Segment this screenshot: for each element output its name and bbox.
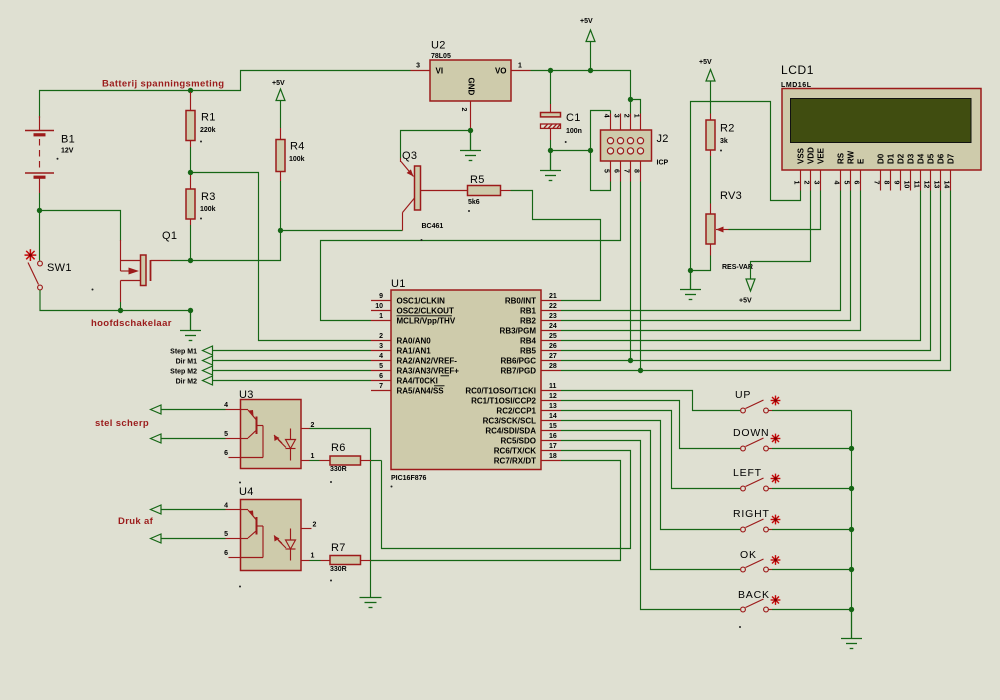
svg-text:RS: RS xyxy=(836,152,845,164)
junction RV3 ground xyxy=(688,268,693,273)
wire U2 VO +5V rail xyxy=(531,71,631,100)
LCD screen xyxy=(791,99,972,143)
svg-text:C1: C1 xyxy=(566,112,581,124)
wire junction down to Q1 gate rail xyxy=(171,231,281,261)
battery B1 xyxy=(39,116,41,130)
wire U2 GND to Q3 emitter xyxy=(401,131,471,159)
junction RB6 J2 pin7 xyxy=(628,358,633,363)
svg-text:3k: 3k xyxy=(720,138,728,145)
svg-text:RC1/T1OSI/CCP2: RC1/T1OSI/CCP2 xyxy=(471,397,536,406)
svg-text:24: 24 xyxy=(549,323,557,330)
U1 right pin stubs xyxy=(541,301,561,461)
svg-text:4: 4 xyxy=(602,114,609,118)
svg-text:3: 3 xyxy=(379,343,383,350)
svg-text:5: 5 xyxy=(842,181,849,185)
wire junction to Q3 collector xyxy=(281,230,403,232)
wire Dir M1 to RA2 xyxy=(213,360,372,362)
junction ground node bottom rail xyxy=(188,308,193,313)
wire J2 pin6 to U1 MCLR xyxy=(321,182,621,321)
svg-text:RC0/T1OSO/T1CKI: RC0/T1OSO/T1CKI xyxy=(465,387,536,396)
svg-text:25: 25 xyxy=(549,333,557,340)
svg-text:VEE: VEE xyxy=(816,147,825,164)
svg-text:6: 6 xyxy=(612,169,619,173)
wire AN0 tap to U1 RA0 xyxy=(191,173,372,341)
svg-text:4: 4 xyxy=(832,181,839,185)
svg-text:RC4/SDI/SDA: RC4/SDI/SDA xyxy=(485,427,536,436)
junction R4 bottom xyxy=(278,228,283,233)
wire RB7 to LCD D7 xyxy=(561,191,951,371)
svg-text:26: 26 xyxy=(549,343,557,350)
svg-text:+5V: +5V xyxy=(739,298,752,305)
svg-text:7: 7 xyxy=(622,169,629,173)
wire arrow to U3 pin4 xyxy=(161,409,226,411)
svg-text:B1: B1 xyxy=(61,134,75,146)
svg-text:12V: 12V xyxy=(61,148,74,155)
svg-text:14: 14 xyxy=(942,181,949,189)
svg-text:7: 7 xyxy=(379,383,383,390)
ground symbol C1 xyxy=(550,151,552,171)
ground symbol buttons xyxy=(851,610,853,639)
wire Step M1 to RA1 xyxy=(213,350,372,352)
svg-text:UP: UP xyxy=(735,389,751,401)
junction battery bottom xyxy=(37,208,42,213)
wire RC5 to BACK button xyxy=(561,441,740,610)
wire arrow to U4 pin4 xyxy=(161,509,226,511)
wire +5V to R4 top xyxy=(280,101,282,129)
svg-text:12: 12 xyxy=(549,393,557,400)
svg-text:RA0/AN0: RA0/AN0 xyxy=(397,337,432,346)
LCD pin stubs xyxy=(801,170,951,191)
svg-text:RC7/RX/DT: RC7/RX/DT xyxy=(494,457,536,466)
svg-text:R7: R7 xyxy=(331,542,346,554)
svg-text:4: 4 xyxy=(379,353,383,360)
svg-text:1: 1 xyxy=(311,453,315,460)
svg-text:U1: U1 xyxy=(391,278,406,290)
svg-text:R5: R5 xyxy=(470,174,485,186)
svg-text:VSS: VSS xyxy=(796,147,805,164)
wire R1 bottom to R3 top (AN0 tap) xyxy=(190,147,192,175)
svg-text:9: 9 xyxy=(892,181,899,185)
wire RC7 to R7 xyxy=(371,461,621,561)
svg-text:2: 2 xyxy=(622,114,629,118)
svg-text:6: 6 xyxy=(852,181,859,185)
svg-text:11: 11 xyxy=(549,383,557,390)
svg-text:MCLR/Vpp/THV: MCLR/Vpp/THV xyxy=(397,317,456,326)
svg-text:OK: OK xyxy=(740,549,757,561)
svg-text:8: 8 xyxy=(882,181,889,185)
wire RB3 to LCD E xyxy=(561,191,861,331)
svg-text:10: 10 xyxy=(902,181,909,189)
svg-text:SW1: SW1 xyxy=(47,262,72,274)
junction C1 ground xyxy=(548,148,553,153)
svg-text:RB3/PGM: RB3/PGM xyxy=(500,327,537,336)
resistor R3 xyxy=(190,175,192,189)
svg-text:BC461: BC461 xyxy=(422,223,444,230)
svg-text:PIC16F876: PIC16F876 xyxy=(391,475,427,482)
wire RC4 to OK button xyxy=(561,431,740,570)
junction OK bus xyxy=(849,567,854,572)
svg-text:11: 11 xyxy=(912,181,919,189)
switch SW1 xyxy=(25,249,37,261)
svg-text:RC3/SCK/SCL: RC3/SCK/SCL xyxy=(483,417,536,426)
svg-text:RIGHT: RIGHT xyxy=(733,508,770,520)
svg-text:LEFT: LEFT xyxy=(733,467,762,479)
wire VSS loop to LCD pin1 xyxy=(691,102,801,271)
svg-text:DOWN: DOWN xyxy=(733,427,769,439)
svg-text:RB4: RB4 xyxy=(520,337,537,346)
wire RC2 to LEFT button xyxy=(561,411,740,489)
wire RB6 to LCD D6 xyxy=(561,191,941,361)
ground symbol bottom-left xyxy=(190,311,192,331)
wire R5 to U1 RB0 xyxy=(511,191,601,301)
svg-text:330R: 330R xyxy=(330,566,347,573)
svg-text:6: 6 xyxy=(224,550,228,557)
terminal arrow Dir M2 xyxy=(203,376,213,385)
svg-text:R2: R2 xyxy=(720,123,735,135)
wire C1 ground to J2 gnd loop xyxy=(551,150,591,152)
svg-text:1: 1 xyxy=(792,181,799,185)
wire battery top rail to U2 VI xyxy=(40,71,411,119)
svg-text:Q1: Q1 xyxy=(162,230,177,242)
svg-text:J2: J2 xyxy=(657,133,669,145)
svg-text:D4: D4 xyxy=(916,153,925,164)
svg-text:D3: D3 xyxy=(906,153,915,164)
svg-text:LCD1: LCD1 xyxy=(781,63,814,77)
svg-text:+5V: +5V xyxy=(699,59,712,66)
junction J2 gnd loop xyxy=(588,148,593,153)
wire RC1 to DOWN button xyxy=(561,401,740,449)
svg-text:D2: D2 xyxy=(896,153,905,164)
wire RB2 to LCD RW xyxy=(561,191,851,321)
wire RB4 to LCD D4 xyxy=(561,191,921,341)
svg-text:RB5: RB5 xyxy=(520,347,537,356)
svg-text:220k: 220k xyxy=(200,127,216,134)
terminal arrow U4 pin4 xyxy=(151,505,162,514)
resistor R4 xyxy=(280,128,282,140)
wire LEFT to bus xyxy=(772,488,852,490)
terminal arrow U3 pin4 xyxy=(151,405,162,414)
U1 pin numbers left xyxy=(375,293,383,390)
connector J2 ICP xyxy=(601,130,652,161)
svg-text:5: 5 xyxy=(379,363,383,370)
junction AN0 tap xyxy=(188,170,193,175)
power +5V down arrow to LCD VDD xyxy=(751,191,811,279)
svg-text:1: 1 xyxy=(518,63,522,70)
svg-text:100k: 100k xyxy=(200,206,216,213)
terminal arrow U3 pin5 xyxy=(151,434,162,443)
svg-text:+5V: +5V xyxy=(580,18,593,25)
wire C1 bottom ground net xyxy=(550,140,552,151)
ground symbol U2 xyxy=(470,131,472,151)
wire RV3 wiper to LCD VEE xyxy=(729,191,821,230)
svg-text:1: 1 xyxy=(311,553,315,560)
svg-text:4: 4 xyxy=(224,503,228,510)
svg-text:RB0/INT: RB0/INT xyxy=(505,297,536,306)
svg-text:D0: D0 xyxy=(876,153,885,164)
svg-text:3: 3 xyxy=(416,63,420,70)
svg-text:BACK: BACK xyxy=(738,589,770,601)
wire RB5 to LCD D5 xyxy=(561,191,931,351)
svg-text:RA1/AN1: RA1/AN1 xyxy=(397,347,432,356)
svg-text:8: 8 xyxy=(632,169,639,173)
junction U2 GND xyxy=(468,128,473,133)
svg-text:1: 1 xyxy=(632,114,639,118)
svg-text:OSC1/CLKIN: OSC1/CLKIN xyxy=(397,297,446,306)
svg-text:Dir M1: Dir M1 xyxy=(176,359,198,366)
svg-text:13: 13 xyxy=(549,403,557,410)
wire R4 bottom to junction xyxy=(280,181,282,231)
resistor R2 xyxy=(710,114,712,121)
svg-text:D1: D1 xyxy=(886,153,895,164)
svg-text:D5: D5 xyxy=(926,153,935,164)
svg-text:hoofdschakelaar: hoofdschakelaar xyxy=(91,318,172,329)
svg-text:9: 9 xyxy=(379,293,383,300)
svg-text:17: 17 xyxy=(549,443,557,450)
svg-text:Druk af: Druk af xyxy=(118,516,154,527)
svg-text:RES-VAR: RES-VAR xyxy=(722,264,753,271)
svg-text:1: 1 xyxy=(379,313,383,320)
svg-text:22: 22 xyxy=(549,303,557,310)
svg-text:VDD: VDD xyxy=(806,147,815,164)
junction BACK bus xyxy=(849,607,854,612)
terminal arrow U4 pin5 xyxy=(151,534,162,543)
U1 left pin stubs xyxy=(371,301,391,391)
svg-text:RA5/AN4/SS: RA5/AN4/SS xyxy=(397,387,445,396)
svg-text:ICP: ICP xyxy=(657,160,669,167)
wire R3 bottom to Q1 gate rail xyxy=(190,225,192,261)
wire DOWN to bus xyxy=(772,448,852,450)
junction DOWN bus xyxy=(849,446,854,451)
wire BACK to bus xyxy=(772,609,852,611)
svg-text:3: 3 xyxy=(612,114,619,118)
svg-text:Batterij spanningsmeting: Batterij spanningsmeting xyxy=(102,79,224,90)
wire RC0 to UP button xyxy=(561,391,740,411)
svg-text:RC5/SDO: RC5/SDO xyxy=(500,437,536,446)
svg-text:stel scherp: stel scherp xyxy=(95,418,149,429)
svg-text:Step M1: Step M1 xyxy=(170,349,197,356)
wire J2 pin8 to RB7 rail xyxy=(640,182,642,371)
svg-text:U2: U2 xyxy=(431,40,446,52)
terminal arrow Step M2 xyxy=(203,366,213,375)
wire J2 pin7 to RB6 rail xyxy=(630,182,632,361)
LCD pin names xyxy=(796,147,955,164)
wire arrow to U3 pin5 xyxy=(161,438,226,440)
junction R3 bottom gate rail xyxy=(188,258,193,263)
wire Step M2 to RA3 xyxy=(213,370,372,372)
ground symbol RV3 xyxy=(690,271,692,290)
svg-text:6: 6 xyxy=(224,450,228,457)
svg-text:16: 16 xyxy=(549,433,557,440)
svg-text:2: 2 xyxy=(313,522,317,529)
svg-text:4: 4 xyxy=(224,402,228,409)
svg-text:5: 5 xyxy=(602,169,609,173)
svg-text:5: 5 xyxy=(224,431,228,438)
svg-text:U4: U4 xyxy=(239,486,254,498)
junction +5V stem xyxy=(588,68,593,73)
svg-text:7: 7 xyxy=(872,181,879,185)
wire J2 pins 1-2 power xyxy=(631,100,641,114)
svg-text:R6: R6 xyxy=(331,442,346,454)
svg-text:Dir M2: Dir M2 xyxy=(176,379,198,386)
svg-text:RC6/TX/CK: RC6/TX/CK xyxy=(494,447,536,456)
U1 pin names right xyxy=(465,297,536,466)
svg-text:10: 10 xyxy=(375,303,383,310)
svg-text:VO: VO xyxy=(495,67,507,76)
svg-text:Step M2: Step M2 xyxy=(170,369,197,376)
svg-text:2: 2 xyxy=(802,181,809,185)
svg-text:14: 14 xyxy=(549,413,557,420)
junction RIGHT bus xyxy=(849,527,854,532)
svg-text:5: 5 xyxy=(224,531,228,538)
svg-text:5k6: 5k6 xyxy=(468,199,480,206)
junction Q1 source on bottom rail xyxy=(118,308,123,313)
svg-text:D6: D6 xyxy=(936,153,945,164)
svg-text:27: 27 xyxy=(549,353,557,360)
wire R2 to RV3 xyxy=(710,156,712,204)
svg-text:R1: R1 xyxy=(201,112,216,124)
svg-text:OSC2/CLKOUT: OSC2/CLKOUT xyxy=(397,307,454,316)
wire SW1 bottom to bottom rail xyxy=(40,290,191,311)
svg-text:23: 23 xyxy=(549,313,557,320)
junction C1 top xyxy=(548,68,553,73)
svg-text:R4: R4 xyxy=(290,141,305,153)
junction RB7 J2 pin8 xyxy=(638,368,643,373)
svg-text:12: 12 xyxy=(922,181,929,189)
svg-text:RA2/AN2/VREF-: RA2/AN2/VREF- xyxy=(397,357,458,366)
svg-text:78L05: 78L05 xyxy=(431,53,451,60)
ground symbol U3 net xyxy=(360,597,382,599)
wire battery junction to Q1 drain xyxy=(40,211,121,242)
svg-text:2: 2 xyxy=(460,108,467,112)
svg-text:D7: D7 xyxy=(946,153,955,164)
svg-text:RB1: RB1 xyxy=(520,307,537,316)
svg-text:13: 13 xyxy=(932,181,939,189)
svg-text:3: 3 xyxy=(812,181,819,185)
svg-text:15: 15 xyxy=(549,423,557,430)
junction J2 power xyxy=(628,97,633,102)
wire J2 pin4-pin5 gnd loop xyxy=(591,111,611,191)
svg-text:100n: 100n xyxy=(566,128,582,135)
svg-text:100k: 100k xyxy=(289,156,305,163)
wire Dir M2 to RA4 xyxy=(213,380,372,382)
svg-text:GND: GND xyxy=(466,78,475,96)
svg-text:RV3: RV3 xyxy=(720,190,742,202)
svg-text:RB2: RB2 xyxy=(520,317,537,326)
U1 pin numbers right xyxy=(549,293,557,460)
svg-text:RB7/PGD: RB7/PGD xyxy=(500,367,536,376)
svg-text:R3: R3 xyxy=(201,191,216,203)
LCD pin numbers xyxy=(792,181,949,189)
svg-text:330R: 330R xyxy=(330,466,347,473)
svg-text:RA3/AN3/VREF+: RA3/AN3/VREF+ xyxy=(397,367,460,376)
svg-text:Q3: Q3 xyxy=(402,150,417,162)
svg-text:E: E xyxy=(856,158,865,164)
terminal arrow Step M1 xyxy=(203,346,213,355)
svg-text:RC2/CCP1: RC2/CCP1 xyxy=(496,407,536,416)
wire battery bottom to SW1 xyxy=(39,193,41,261)
svg-text:RA4/T0CKI: RA4/T0CKI xyxy=(397,377,438,386)
svg-text:VI: VI xyxy=(436,67,444,76)
wire OK to bus xyxy=(772,569,852,571)
svg-text:RB6/PGC: RB6/PGC xyxy=(500,357,536,366)
junction LEFT bus xyxy=(849,486,854,491)
svg-text:+5V: +5V xyxy=(272,80,285,87)
svg-text:6: 6 xyxy=(379,373,383,380)
wire +5V to R2 xyxy=(710,81,712,114)
wire buttons bus xyxy=(851,411,853,610)
svg-text:18: 18 xyxy=(549,453,557,460)
svg-text:2: 2 xyxy=(379,333,383,340)
svg-text:21: 21 xyxy=(549,293,557,300)
wire RIGHT to bus xyxy=(772,529,852,531)
svg-text:28: 28 xyxy=(549,363,557,370)
resistor R1 xyxy=(190,92,192,111)
wire RB1 to LCD RS xyxy=(561,191,841,311)
terminal arrow Dir M1 xyxy=(203,356,213,365)
wire U3 pin2 to ground rail xyxy=(310,429,371,598)
wire RC6 to R6 xyxy=(382,451,631,549)
wire RC3 to RIGHT button xyxy=(561,421,740,530)
svg-text:RW: RW xyxy=(846,150,855,164)
wire UP to bus xyxy=(772,410,852,412)
capacitor C1 xyxy=(550,71,552,105)
U1 pin names left xyxy=(397,297,460,396)
wire Q1 source down xyxy=(120,302,122,311)
junction R1 top xyxy=(188,88,193,93)
wire arrow to U4 pin5 xyxy=(161,538,226,540)
wire RV3 bottom to ground xyxy=(691,256,711,271)
